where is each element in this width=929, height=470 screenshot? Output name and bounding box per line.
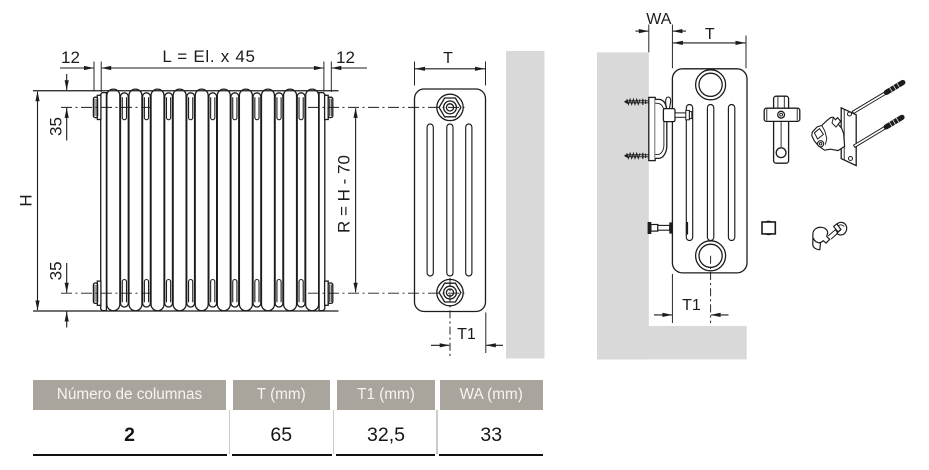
side view bottom hex plug [437,279,463,305]
right view slot 1 [686,105,692,241]
wall panel center [506,51,545,359]
right top plug flange [325,95,329,119]
mounting screw upper shank [852,91,887,113]
dimension H line [37,92,39,310]
svg-text:12: 12 [336,48,355,67]
right view T1 left extension [671,274,673,323]
table value: 65 [233,426,331,444]
front view left end cap [101,93,107,311]
right view radiator body [672,69,747,273]
mounting plate [841,108,856,166]
side view T extension lines [414,62,416,86]
svg-text:T1: T1 [682,297,701,314]
side view vertical centerline [449,278,451,356]
svg-text:R = H - 70: R = H - 70 [335,155,354,233]
side view slot 3 [466,124,472,276]
svg-text:T1: T1 [457,326,476,343]
dimension T1 (side view) [431,344,449,346]
table header: T (mm) [233,380,331,410]
right bottom ribbed plug [328,283,333,303]
left bottom plug flange [97,281,101,305]
dimension T1 (right view) [654,314,672,316]
front view top gap slot 8 [277,97,281,119]
front view rear tube 7 [253,93,261,307]
continuous bottom centerline to side view [308,292,467,294]
dimension T (right view) [673,42,746,44]
table value: 33 [440,426,544,444]
mounting screw upper thread [886,83,902,93]
right view slot 3 [728,105,734,241]
dimension 35 bottom [66,263,68,293]
front view rear tube 1 [120,93,128,307]
svg-text:12: 12 [61,48,80,67]
front view top gap slot 6 [233,97,237,120]
dimension L line [102,67,324,69]
mounting screw lower shank [854,126,887,148]
wall anchor screw lower [628,154,649,156]
side view T1 extension line [485,313,487,354]
front view bottom centerline left [61,292,150,294]
pipe clip bolt shaft [828,230,838,239]
bracket hook [666,97,671,109]
front view right end cap [319,93,325,311]
lower support flange [670,223,672,233]
small square [762,222,775,234]
mounting screw lower thread [886,117,902,127]
hardware bracket pivot circle [778,111,785,118]
hardware bracket crossbar [764,108,800,121]
spring clip clamp [812,117,845,150]
side view slot 1 [427,124,433,276]
front view column tube 10 [306,89,319,311]
front view column tube 2 [129,89,142,311]
front view column tube 7 [239,89,252,311]
front view top gap slot 4 [189,97,193,120]
feed pipe mark in first slot [686,222,688,235]
spring clip screw head [818,141,824,147]
bracket nut [686,110,690,119]
front view rear tube 8 [275,93,283,307]
front view top gap slot 7 [255,97,259,120]
hardware bracket stem line [780,121,782,147]
front view rear tube 2 [143,93,151,307]
hardware bracket lower hole [776,148,786,158]
table value: 32,5 [337,426,435,444]
front view column tube 9 [284,89,297,311]
front view column tube 6 [217,89,230,311]
column separator 1 [229,410,231,455]
pipe clip bolt head [837,222,847,235]
front view column tube 3 [151,89,164,311]
wall panel right (vertical) [597,52,649,359]
left bottom plug ring [93,283,97,303]
front view bottom gap slot 4 [189,280,193,303]
front view top reference line [33,90,339,92]
column separator 3 [436,410,438,455]
dimension 12 right [332,67,367,69]
bracket clamp block [663,109,675,122]
front view top gap slot 3 [166,97,170,120]
front view column tube 4 [173,89,186,311]
wall bracket arm [655,99,667,158]
front view bottom reference line [33,310,339,312]
front view top gap slot 5 [211,97,215,120]
front view column tube 5 [195,89,208,311]
svg-text:T: T [443,50,453,67]
table header: WA (mm) [440,380,544,410]
right view bottom port [696,241,726,271]
dimension WA [636,30,649,32]
table header: Numero de columnas [33,380,226,410]
pipe clip body [813,227,830,243]
front view bottom gap slot 2 [144,280,148,303]
svg-text:35: 35 [47,261,66,280]
right view slot 2 [707,105,713,241]
plate hole upper [848,112,852,116]
plate hole lower [849,157,853,161]
dimension 12 left [60,67,94,69]
lower support block [651,225,658,232]
svg-text:H: H [17,194,36,206]
left top plug flange [97,95,101,119]
lower support wall bar [648,222,651,233]
continuous top centerline to side view [308,106,467,108]
table bottom rule [33,454,227,456]
front view bottom gap slot 6 [233,280,237,303]
table header: T1 (mm) [337,380,435,410]
bracket rod [675,113,687,117]
right bottom plug flange [325,281,329,305]
front view top gap slot 9 [299,97,303,120]
floor panel right [597,326,747,360]
svg-text:WA: WA [646,11,672,28]
column separator 2 [333,410,335,455]
svg-text:L = El. x 45: L = El. x 45 [162,47,255,66]
front view column tube 8 [261,89,274,311]
front view bottom gap slot 7 [255,280,259,303]
front view bottom gap slot 9 [299,280,303,303]
right top ribbed plug [328,97,333,117]
svg-text:T: T [705,26,715,43]
wall bracket plate [649,97,655,160]
front view bottom gap slot 5 [211,280,215,303]
pipe clip bolt collar [834,224,842,232]
hardware bracket stem [774,96,789,163]
left top plug ring [93,97,97,117]
side view top hex plug [437,94,463,120]
front view bottom gap slot 3 [166,280,170,303]
table value: 2 [33,426,226,444]
svg-text:35: 35 [47,117,66,136]
extension lines for 12 and L [93,62,95,92]
right view vertical centerline [710,256,712,323]
dimension T (side view) [415,68,485,70]
bracket washer [689,112,691,119]
front view bottom gap slot 8 [277,280,281,303]
front view bottom gap slot 1 [122,280,126,303]
wall anchor screw upper [628,100,649,102]
pipe clip sleeve [813,234,821,250]
front view rear tube 4 [187,93,195,307]
right radiator right edge extension line [745,36,747,69]
front view rear tube 3 [165,93,173,307]
spring clip inner edges [822,125,827,144]
front view top centerline left [61,106,150,108]
front view column tube 1 [107,89,120,311]
side view radiator body [415,89,486,312]
front view rear tube 6 [231,93,239,307]
front view top gap slot 1 [122,97,126,120]
lower support rod [658,225,670,230]
left radiator edge extension line [671,25,673,69]
WA extension line (wall face) [648,25,650,53]
front view top gap slot 2 [144,97,148,120]
dimension R = H - 70 line [355,108,357,292]
front view rear tube 5 [209,93,217,307]
dimension 35 top [66,74,68,90]
side view slot 2 [447,124,453,276]
right view top port [696,70,726,100]
front view rear tube 9 [297,93,305,307]
